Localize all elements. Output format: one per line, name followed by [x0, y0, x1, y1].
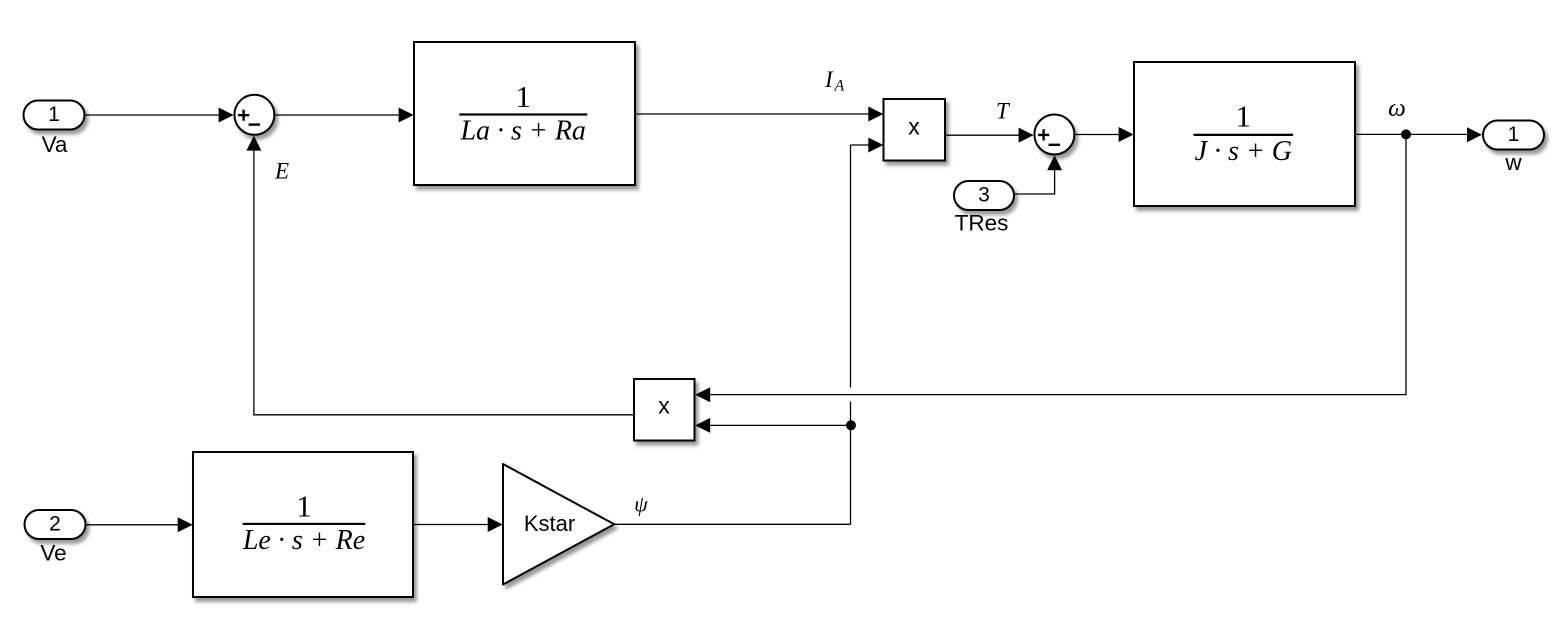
svg-text:1: 1	[296, 488, 312, 523]
sum junction Sum1	[234, 95, 274, 135]
svg-text:1: 1	[515, 79, 531, 114]
svg-text:ψ: ψ	[634, 491, 648, 516]
svg-text:Le · s + Re: Le · s + Re	[242, 525, 365, 556]
svg-text:1: 1	[1236, 99, 1252, 134]
signal label omega	[1388, 95, 1406, 122]
svg-text:J · s + G: J · s + G	[1195, 136, 1292, 167]
wire Le block to gain Kstar	[414, 517, 503, 532]
product block Product2 (x)	[634, 379, 695, 441]
svg-text:Kstar: Kstar	[524, 511, 575, 536]
wire La block to Product1 input 1	[636, 107, 884, 122]
gain block Kstar (triangle)	[503, 464, 614, 585]
wire J block to output port w	[1355, 127, 1482, 142]
svg-text:1: 1	[1508, 123, 1520, 146]
transfer fcn block 1/(La·s+Ra)	[414, 42, 635, 185]
wire Sum2 to J block	[1075, 127, 1133, 142]
svg-text:w: w	[1504, 150, 1522, 175]
svg-text:La · s + Ra: La · s + Ra	[459, 116, 585, 147]
wire TRes to Sum2 minus input	[1015, 155, 1063, 194]
svg-text:1: 1	[48, 103, 60, 126]
sum junction Sum2	[1034, 115, 1074, 155]
feedback wire omega to Product2 input 1	[695, 134, 1406, 402]
svg-text:TRes: TRes	[955, 211, 1009, 236]
output port 1 (w)	[1483, 121, 1544, 176]
signal label E	[274, 159, 289, 184]
svg-text:A: A	[834, 78, 845, 95]
svg-text:2: 2	[49, 513, 61, 536]
signal label psi	[634, 491, 648, 516]
wire psi riser lower segment	[850, 402, 852, 525]
wire Product2 output to Sum1 minus input	[246, 136, 634, 415]
wire psi riser to Product1 input 2	[851, 138, 884, 153]
svg-text:Va: Va	[42, 132, 68, 157]
svg-text:x: x	[908, 113, 920, 139]
svg-text:ω: ω	[1388, 95, 1406, 122]
input port 2 (Ve)	[25, 510, 86, 565]
svg-text:Ve: Ve	[40, 540, 66, 565]
transfer fcn block 1/(Le·s+Re)	[193, 452, 413, 597]
wire psi branch dot to Product2 input 2	[695, 418, 847, 433]
signal label I_A	[824, 67, 845, 95]
wire Va to Sum1	[85, 108, 234, 123]
svg-text:I: I	[824, 67, 834, 92]
svg-text:T: T	[996, 98, 1011, 123]
branch dot on omega wire	[1401, 129, 1411, 139]
wire psi riser upper segment	[850, 145, 852, 388]
wire Sum1 to La block	[275, 108, 414, 123]
branch dot on psi riser	[846, 420, 856, 430]
svg-text:E: E	[274, 159, 289, 184]
svg-text:x: x	[658, 393, 670, 419]
input port 3 (TRes)	[954, 181, 1014, 236]
product block Product1 (x)	[884, 99, 946, 161]
signal label T	[996, 98, 1011, 123]
wire Product1 to Sum2	[946, 128, 1034, 143]
svg-text:3: 3	[978, 184, 990, 207]
transfer fcn block 1/(J·s+G)	[1134, 62, 1355, 206]
wire Ve to Le block	[86, 517, 193, 532]
input port 1 (Va)	[24, 101, 85, 157]
wire psi from Kstar apex to riser	[614, 523, 850, 525]
